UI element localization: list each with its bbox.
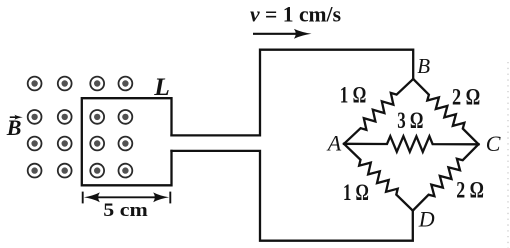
wire top rail xyxy=(172,50,414,136)
sliding conductor rectangle (rails frame) xyxy=(82,98,172,185)
svg-text:D: D xyxy=(418,207,435,232)
svg-text:v = 1 cm/s: v = 1 cm/s xyxy=(250,2,341,27)
velocity arrow xyxy=(253,29,312,39)
field dot r2c3 xyxy=(90,110,104,124)
magnetic field B out of page: 4x4 dot grid xyxy=(28,77,133,178)
field dot r1c3 xyxy=(90,77,104,91)
field dot r1c2 xyxy=(58,77,72,91)
field dot r2c2 xyxy=(58,110,72,124)
field dot r3c1 xyxy=(28,137,42,151)
svg-text:1 Ω: 1 Ω xyxy=(343,180,369,205)
svg-text:L: L xyxy=(153,72,170,101)
field dot r4c3 xyxy=(90,164,104,178)
wire bottom rail xyxy=(172,151,413,241)
svg-text:1 Ω: 1 Ω xyxy=(340,82,367,107)
field dot r2c4 xyxy=(119,110,133,124)
svg-text:B: B xyxy=(6,115,22,140)
field dot r3c2 xyxy=(58,137,72,151)
B vector arrow over label xyxy=(10,115,23,120)
field dot r2c1 xyxy=(28,110,42,124)
dimension arrow 5 cm (double-headed with end ticks) xyxy=(83,192,171,204)
resistor R_AD 1 ohm xyxy=(344,144,413,211)
field dot r4c4 xyxy=(119,164,133,178)
svg-text:B: B xyxy=(417,54,430,78)
svg-text:2 Ω: 2 Ω xyxy=(452,84,480,109)
field dot r1c4 xyxy=(119,77,133,91)
svg-text:2 Ω: 2 Ω xyxy=(456,178,484,203)
field dot r4c2 xyxy=(58,164,72,178)
field dot r4c1 xyxy=(28,164,42,178)
field dot r3c4 xyxy=(119,137,133,151)
resistor R_AC 3 ohm xyxy=(344,136,479,152)
field dot r3c3 xyxy=(90,137,104,151)
resistor R_DC 2 ohm xyxy=(413,144,479,210)
svg-text:3 Ω: 3 Ω xyxy=(397,108,423,133)
svg-text:C: C xyxy=(486,131,501,156)
page edge dotted line xyxy=(507,62,509,248)
svg-text:A: A xyxy=(326,130,342,155)
svg-text:5 cm: 5 cm xyxy=(103,200,148,221)
resistor R_AB 1 ohm xyxy=(344,79,413,144)
resistor R_BC 2 ohm xyxy=(413,79,478,144)
field dot r1c1 xyxy=(28,77,42,91)
